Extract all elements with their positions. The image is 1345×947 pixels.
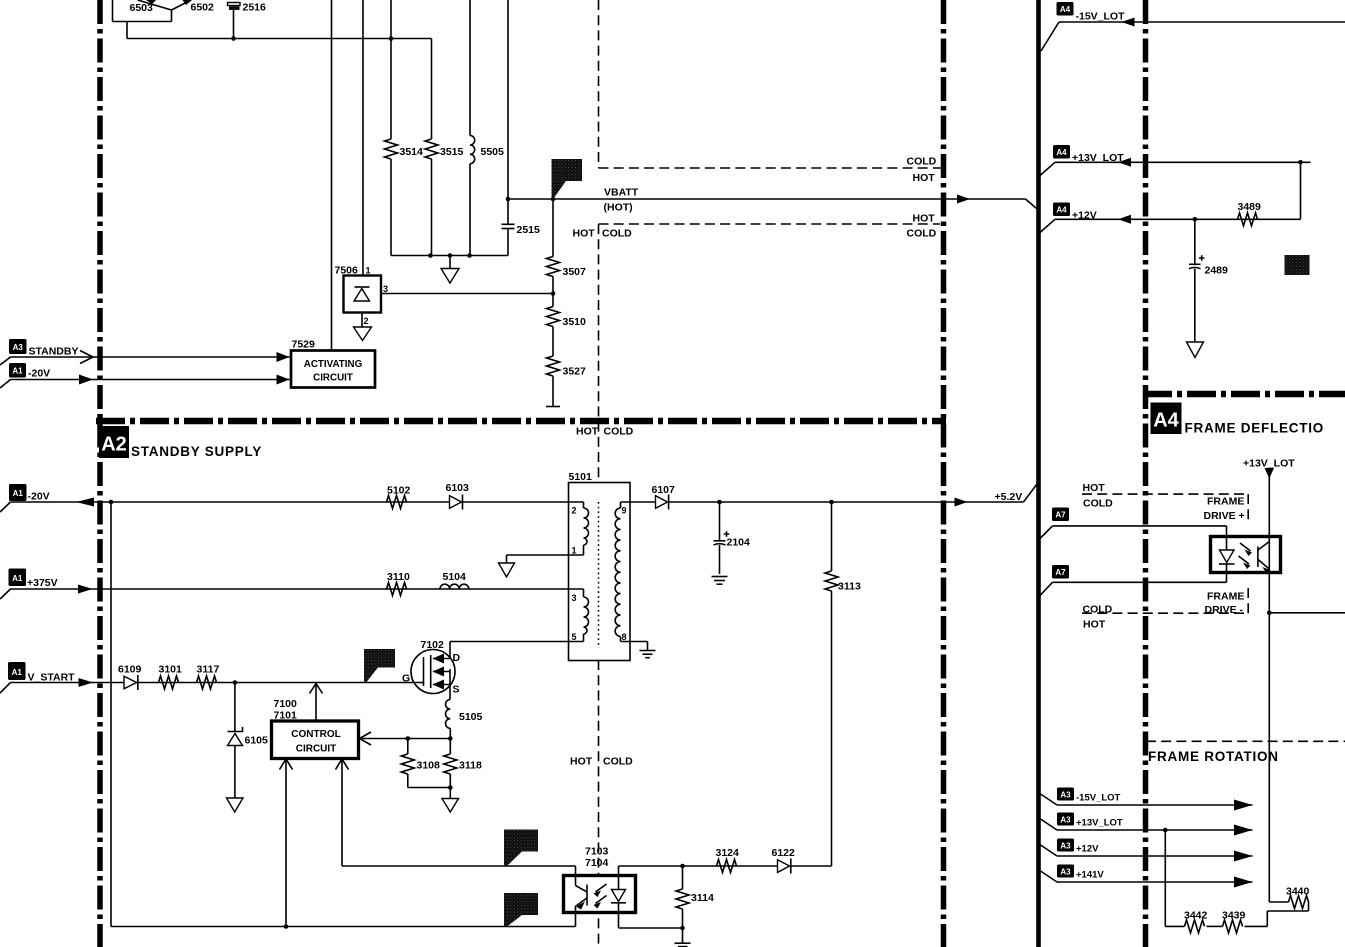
ground arrow source network <box>442 788 459 813</box>
arrow +375V in <box>78 585 93 594</box>
hot/cold isolation barrier vertical lower <box>598 660 600 947</box>
svg-text:3114: 3114 <box>691 892 714 904</box>
wire +375V rail <box>11 588 584 590</box>
tag A1 -20V upper <box>0 363 50 388</box>
arrow STANDBY into 7529 <box>277 352 290 362</box>
resistor 3124 <box>717 860 737 873</box>
wire rotation bottom <box>1165 925 1184 927</box>
wire +13V branch vertical <box>1164 830 1166 926</box>
svg-text:6105: 6105 <box>245 735 269 747</box>
section label A4 <box>1151 403 1182 435</box>
wire to trigger 7506 pin 1 <box>362 0 364 276</box>
svg-text:A2: A2 <box>101 434 127 456</box>
svg-text:6107: 6107 <box>652 484 676 496</box>
node VBATT at 508 <box>506 197 511 202</box>
wire pin1 out <box>507 555 584 563</box>
svg-text:3527: 3527 <box>563 366 587 378</box>
svg-text:7103: 7103 <box>585 846 609 858</box>
resistor 3439 <box>1223 920 1243 933</box>
capacitor 2489 <box>1189 219 1205 341</box>
svg-text:7101: 7101 <box>274 710 298 722</box>
tag A1 -20V <box>0 484 50 512</box>
resistor 3114 <box>676 866 689 943</box>
arrow -15V_LOT rotation <box>1234 800 1253 811</box>
wire top horizontal bus <box>127 38 432 40</box>
svg-text:A3: A3 <box>1060 842 1071 851</box>
svg-text:A7: A7 <box>1055 568 1066 577</box>
wire control right input <box>360 732 451 745</box>
wire 7506 pin2 <box>361 313 363 328</box>
node 2104 tap <box>717 500 722 505</box>
svg-text:3514: 3514 <box>400 146 424 158</box>
svg-text:3118: 3118 <box>459 760 482 772</box>
svg-text:+13V_LOT: +13V_LOT <box>1076 818 1123 829</box>
resistor 3515 <box>425 39 438 256</box>
svg-text:+12V: +12V <box>1076 844 1099 855</box>
tag A1 +375V <box>0 569 58 600</box>
resistor 3108 <box>401 739 414 788</box>
capacitor 2515 <box>502 224 515 255</box>
transformer secondary winding 9-8 <box>615 502 620 642</box>
control circuit 7100/7101 <box>272 721 359 759</box>
wire frame drive + <box>1053 526 1227 537</box>
svg-text:G: G <box>402 673 410 685</box>
svg-text:COLD: COLD <box>1083 604 1113 616</box>
diode 6503 <box>138 0 172 10</box>
arrow +13V_LOT rotation <box>1234 825 1253 836</box>
capacitor 2104 <box>714 502 730 574</box>
wire 7506 pin3 to divider <box>381 293 553 295</box>
svg-text:6122: 6122 <box>772 847 796 859</box>
arrow +141V rotation <box>1234 877 1253 888</box>
node source network right <box>448 736 453 741</box>
module boundary A2 top dash-dot border <box>96 418 946 425</box>
wire -20V upper <box>11 379 290 381</box>
arrow -15V_LOT <box>1122 18 1135 27</box>
wire pin9 out <box>621 501 656 503</box>
node VBATT to divider <box>551 197 556 202</box>
svg-text:2: 2 <box>364 316 369 326</box>
wire parallel network bottom <box>391 255 508 257</box>
node -20V branch <box>109 500 114 505</box>
tag A7 lower <box>1040 565 1069 596</box>
arrow -20V mid <box>79 375 93 385</box>
wire bus drop from box <box>126 22 128 39</box>
node +13V_LOT corner <box>1298 160 1303 165</box>
resistor 3113 <box>825 502 838 866</box>
svg-text:3489: 3489 <box>1238 201 1262 213</box>
wire opto photodiode top out <box>619 866 832 876</box>
optocoupler 7103/7104 <box>564 866 636 913</box>
svg-text:3108: 3108 <box>417 760 441 772</box>
resistor 3101 <box>159 676 179 689</box>
svg-text:CIRCUIT: CIRCUIT <box>313 373 353 384</box>
svg-text:A4: A4 <box>1056 148 1067 157</box>
node bus 3514 <box>389 36 394 41</box>
svg-text:7102: 7102 <box>421 639 445 651</box>
trigger diode 7506 <box>344 276 382 313</box>
wire top-left box vertical <box>112 0 114 22</box>
wire 3510-3527 <box>552 327 554 357</box>
tag A3 +141V <box>1038 865 1105 883</box>
svg-text:3510: 3510 <box>563 316 587 328</box>
wire +12V <box>1055 218 1301 220</box>
diode 6107 <box>656 495 669 510</box>
wire 3108-3118 bottom <box>408 787 451 789</box>
resistor 3117 <box>197 676 217 689</box>
node source network left <box>406 736 411 741</box>
tag A7 upper <box>1040 508 1069 539</box>
wire control bottom left <box>280 759 293 927</box>
wire -15V_LOT rotation <box>1057 804 1253 806</box>
svg-text:3442: 3442 <box>1184 910 1208 922</box>
svg-text:+5.2V: +5.2V <box>995 491 1023 503</box>
wire control bottom right <box>336 759 349 867</box>
svg-text:A3: A3 <box>1060 816 1071 825</box>
service flag VBATT <box>552 159 583 199</box>
svg-text:COLD: COLD <box>1083 498 1113 510</box>
svg-text:A4: A4 <box>1056 206 1067 215</box>
svg-text:FRAME DEFLECTIO: FRAME DEFLECTIO <box>1185 421 1325 436</box>
svg-text:COLD: COLD <box>603 756 633 768</box>
ground arrow top network <box>441 256 459 284</box>
wire STANDBY <box>11 356 290 358</box>
svg-text:COLD: COLD <box>907 156 937 168</box>
node control left bottom <box>284 924 289 929</box>
wire frame drive out right <box>1269 612 1345 614</box>
node divider tap <box>551 291 556 296</box>
barrier dashed frame drive + <box>1082 493 1247 495</box>
svg-text:HOT: HOT <box>570 756 593 768</box>
diode 6502 <box>172 0 193 10</box>
svg-text:DRIVE +: DRIVE + <box>1204 510 1245 522</box>
svg-text:3: 3 <box>572 593 577 603</box>
barrier dashed frame drive - <box>1082 612 1247 614</box>
svg-text:A4: A4 <box>1060 5 1071 14</box>
diagonal +5.2V to bus <box>1024 484 1038 502</box>
wire +141V rotation <box>1057 881 1253 883</box>
node 2489 tap <box>1193 217 1198 222</box>
arrow -20V out <box>76 498 94 507</box>
svg-text:6103: 6103 <box>446 482 470 494</box>
resistor 3110 <box>387 583 407 596</box>
wire +13V_LOT <box>1055 161 1311 163</box>
svg-text:3110: 3110 <box>387 571 410 583</box>
svg-text:-20V: -20V <box>28 491 50 503</box>
svg-text:2489: 2489 <box>1205 265 1229 277</box>
svg-text:7100: 7100 <box>274 698 298 710</box>
svg-text:7104: 7104 <box>585 857 609 869</box>
svg-text:CONTROL: CONTROL <box>291 729 340 740</box>
inductor 5505 <box>470 0 475 256</box>
wire opto led bottom to gnd wire <box>575 912 577 927</box>
svg-text:COLD: COLD <box>907 228 937 240</box>
svg-text:7506: 7506 <box>335 265 359 277</box>
wire -15V_LOT <box>1059 21 1345 23</box>
resistor 3514 <box>385 0 398 256</box>
svg-text:CIRCUIT: CIRCUIT <box>296 744 337 755</box>
node network bottom 5505 <box>467 253 472 258</box>
node 3113 tap <box>829 500 834 505</box>
svg-text:DRIVE -: DRIVE - <box>1205 604 1244 616</box>
wire -20V rail <box>11 501 584 503</box>
wire opto phototransistor emitter down <box>619 911 683 928</box>
svg-text:8: 8 <box>622 632 627 642</box>
tag A4 +12V <box>1040 203 1097 233</box>
hot/cold isolation barrier vertical mid <box>598 224 600 483</box>
barrier dashed vertical - <box>1247 588 1249 613</box>
svg-text:HOT: HOT <box>576 426 599 438</box>
svg-text:1: 1 <box>572 546 577 556</box>
transformer winding pin3-5 <box>584 589 589 642</box>
svg-text:3: 3 <box>383 284 388 294</box>
svg-text:5104: 5104 <box>443 571 467 583</box>
wire control to optocoupler led <box>342 865 576 867</box>
ground arrow 7506 <box>354 327 372 341</box>
module boundary A4 top dash-dot border <box>1143 391 1345 398</box>
wire -20V long vertical <box>110 502 112 927</box>
svg-text:A3: A3 <box>13 343 24 352</box>
wire VBATT <box>508 198 1026 200</box>
node frame drive junction <box>1267 611 1272 616</box>
svg-text:FRAME: FRAME <box>1207 591 1244 603</box>
hot/cold isolation barrier horizontal lower <box>599 223 941 225</box>
wire 3507-3510 <box>552 277 554 307</box>
earth ground 3114 <box>675 943 691 946</box>
wire vbatt feed vertical <box>507 0 509 224</box>
barrier dashed vertical + <box>1247 494 1249 521</box>
arrow VBATT direction <box>957 195 970 204</box>
svg-text:3124: 3124 <box>716 847 740 859</box>
svg-text:7529: 7529 <box>292 339 316 351</box>
module boundary A4 left dash-dot border <box>1143 0 1149 947</box>
section label A2 <box>99 426 129 458</box>
service flag opto top <box>504 830 538 867</box>
svg-text:6109: 6109 <box>118 664 142 676</box>
wire divider top <box>552 199 554 257</box>
svg-text:3507: 3507 <box>563 266 587 278</box>
svg-text:+375V: +375V <box>27 577 58 589</box>
hot/cold isolation barrier horizontal upper <box>599 167 943 169</box>
svg-text:1: 1 <box>366 266 371 276</box>
zener 6105 <box>228 683 243 798</box>
node V_START zener branch <box>233 680 238 685</box>
svg-text:-20V: -20V <box>28 368 50 380</box>
wire +13V_LOT rotation <box>1057 829 1253 831</box>
svg-text:3439: 3439 <box>1222 910 1246 922</box>
svg-text:6502: 6502 <box>191 2 215 14</box>
module boundary right of A2 dash-dot border <box>941 0 947 947</box>
wire 3439 to corner <box>1245 911 1309 926</box>
svg-text:STANDBY SUPPLY: STANDBY SUPPLY <box>131 444 262 459</box>
wire +5.2V rail <box>669 501 1024 503</box>
bus vertical solid <box>1036 0 1041 947</box>
svg-text:D: D <box>453 652 461 664</box>
svg-text:A4: A4 <box>1153 410 1179 432</box>
ground bar divider <box>546 406 560 408</box>
svg-text:HOT: HOT <box>913 172 936 184</box>
service flag at 7102 gate <box>364 649 395 682</box>
tag A4 +13V_LOT <box>1040 145 1124 176</box>
capacitor 2516 <box>228 3 241 39</box>
svg-text:COLD: COLD <box>602 228 632 240</box>
wire control to V_START with chevron <box>310 684 323 722</box>
wire top-left box bottom <box>113 21 172 23</box>
tag A1 V_START <box>0 662 75 693</box>
svg-text:(HOT): (HOT) <box>604 202 633 214</box>
node 3114 bottom <box>680 926 685 931</box>
wire 3440 left lead <box>1269 901 1288 903</box>
svg-text:3117: 3117 <box>197 664 220 676</box>
svg-text:5505: 5505 <box>481 146 505 158</box>
svg-text:3440: 3440 <box>1286 886 1310 898</box>
svg-text:A1: A1 <box>12 574 23 583</box>
transformer 5101 <box>569 483 631 661</box>
resistor 3507 <box>547 257 560 277</box>
svg-text:FRAME: FRAME <box>1207 496 1244 508</box>
svg-text:3515: 3515 <box>440 146 464 158</box>
arrow +12V rotation <box>1234 851 1253 862</box>
svg-text:A3: A3 <box>1060 791 1071 800</box>
node cap 2516 to bus <box>231 36 236 41</box>
wire to activating circuit <box>331 0 333 351</box>
diode 6109 <box>124 675 138 690</box>
mosfet 7102 <box>411 642 455 700</box>
frame rotation dashed top <box>1146 740 1345 742</box>
arrow -20V into 7529 <box>277 375 290 385</box>
svg-text:+13V_LOT: +13V_LOT <box>1243 458 1295 470</box>
wire frame drive - <box>1053 572 1227 582</box>
wire +13V_LOT vertical <box>1268 477 1270 902</box>
optocoupler 7105 frame drive <box>1211 537 1281 574</box>
tag A4 -15V_LOT <box>1041 2 1125 51</box>
svg-text:A1: A1 <box>12 668 23 677</box>
ground arrow pin1 <box>499 563 515 577</box>
svg-text:9: 9 <box>622 506 627 516</box>
resistor 3510 <box>547 307 560 327</box>
arrow STANDBY chevron <box>80 351 93 364</box>
svg-text:+141V: +141V <box>1076 870 1104 881</box>
inductor 5104 <box>440 584 469 589</box>
tag A3 +13V_LOT <box>1038 813 1123 831</box>
node 3118 bottom <box>448 785 453 790</box>
svg-text:S: S <box>453 684 460 696</box>
diode 6122 <box>778 859 791 874</box>
svg-text:6503: 6503 <box>130 2 154 14</box>
inductor 5105 <box>445 700 450 739</box>
wire 3527 to rail end <box>552 376 554 407</box>
diagonal VBATT to bus <box>1026 199 1040 211</box>
svg-text:A3: A3 <box>1060 868 1071 877</box>
resistor 5102 <box>387 496 407 509</box>
svg-text:ACTIVATING: ACTIVATING <box>304 359 363 370</box>
svg-text:3113: 3113 <box>838 581 861 593</box>
activating circuit 7529 <box>291 351 375 388</box>
wire 3442-3439 <box>1207 925 1223 927</box>
arrow +12V <box>1118 215 1131 224</box>
diode 6103 <box>450 495 463 510</box>
wire +13V corner down <box>1300 162 1302 219</box>
svg-text:COLD: COLD <box>604 426 634 438</box>
svg-text:3101: 3101 <box>159 664 183 676</box>
resistor 3489 <box>1238 213 1258 226</box>
svg-text:HOT: HOT <box>573 228 596 240</box>
svg-text:A1: A1 <box>13 489 24 498</box>
svg-text:A1: A1 <box>12 367 23 376</box>
svg-text:VBATT: VBATT <box>604 187 639 199</box>
svg-text:-15V_LOT: -15V_LOT <box>1076 793 1121 804</box>
resistor 3442 <box>1185 920 1205 933</box>
transformer winding pin2-1 <box>584 502 589 555</box>
node 3114 top <box>680 864 685 869</box>
svg-text:HOT: HOT <box>913 213 936 225</box>
service flag opto bottom <box>504 893 538 927</box>
svg-text:5105: 5105 <box>459 711 483 723</box>
wire V_START rail <box>11 682 424 684</box>
resistor 3527 <box>547 356 560 376</box>
svg-text:STANDBY: STANDBY <box>29 346 79 358</box>
earth ground pin8 <box>640 651 656 658</box>
tag A3 -15V_LOT <box>1038 788 1121 806</box>
svg-text:5102: 5102 <box>387 485 411 497</box>
svg-text:-15V_LOT: -15V_LOT <box>1076 11 1126 23</box>
ground arrow 2489 <box>1187 342 1204 358</box>
svg-text:2: 2 <box>572 506 577 516</box>
wire pin8 out <box>621 642 648 651</box>
node +13V_LOT branch down <box>1163 828 1168 833</box>
svg-text:5: 5 <box>572 632 577 642</box>
tag A3 +12V <box>1038 839 1100 857</box>
svg-text:A7: A7 <box>1055 511 1066 520</box>
ground arrow 6105 <box>227 798 244 812</box>
arrow +5.2V <box>955 498 968 507</box>
svg-text:2515: 2515 <box>517 224 541 236</box>
node network bottom 3515 <box>428 253 433 258</box>
svg-text:FRAME ROTATION: FRAME ROTATION <box>1148 749 1279 764</box>
svg-text:HOT: HOT <box>1083 619 1106 631</box>
wire pin5 to drain <box>450 641 584 643</box>
transformer 5101 core dotted line <box>598 502 600 648</box>
svg-text:2104: 2104 <box>727 537 751 549</box>
tag A3 STANDBY <box>0 339 78 365</box>
halftone service square <box>1285 255 1310 275</box>
resistor 3440 <box>1289 896 1309 912</box>
earth ground 2104 <box>712 577 728 585</box>
svg-text:5101: 5101 <box>569 471 593 483</box>
arrow +13V_LOT down <box>1265 468 1275 479</box>
module boundary left dash-dot border <box>97 0 103 947</box>
arrow V_START in <box>79 678 94 687</box>
svg-text:HOT: HOT <box>1083 482 1106 494</box>
arrow +13V_LOT <box>1118 158 1131 167</box>
node network bottom ground stub <box>448 253 453 258</box>
wire diode apex stub <box>171 10 173 22</box>
svg-text:2516: 2516 <box>243 2 267 14</box>
resistor 3118 <box>444 739 457 788</box>
wire bottom return <box>111 926 576 928</box>
hot/cold isolation barrier vertical upper <box>598 0 600 168</box>
wire +12V rotation <box>1057 855 1253 857</box>
